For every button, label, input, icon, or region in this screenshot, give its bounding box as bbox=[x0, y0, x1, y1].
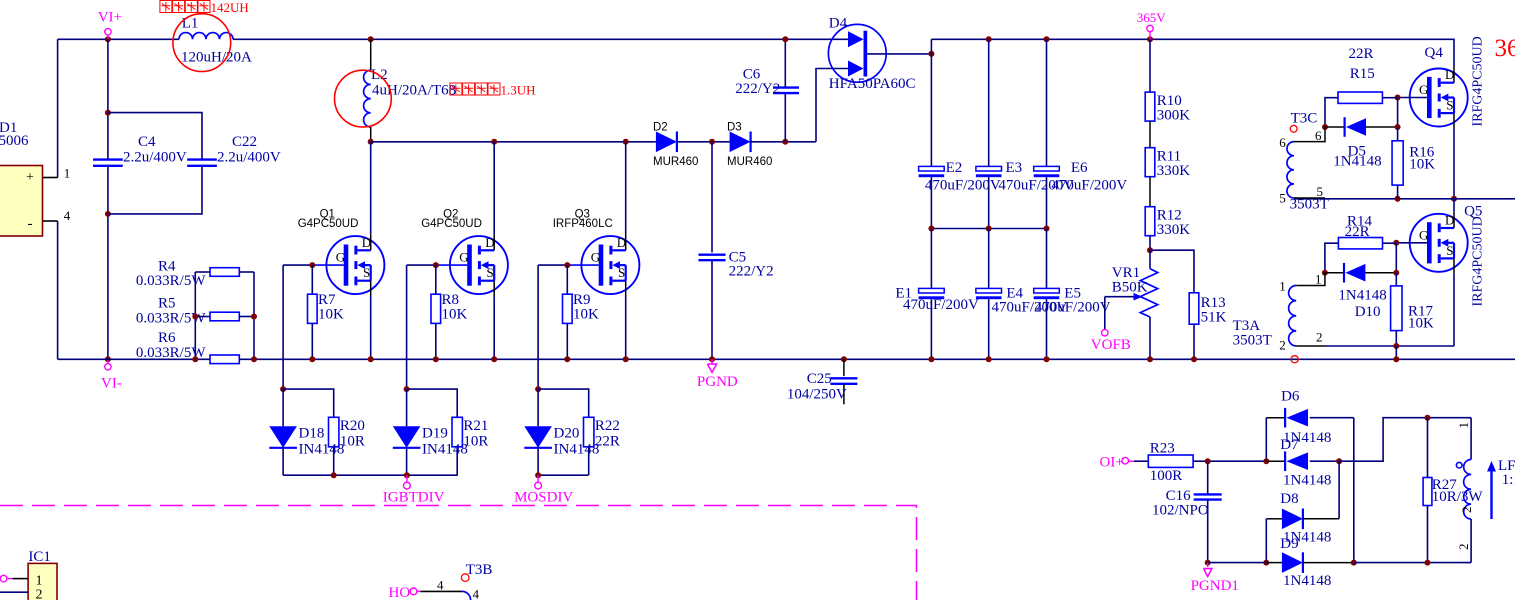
node D4 output bbox=[928, 51, 934, 57]
red 365V clipped bbox=[1495, 35, 1515, 62]
svg-text:IN4148: IN4148 bbox=[299, 442, 345, 458]
wire E mid rail bbox=[931, 228, 1046, 230]
resistor R13 bbox=[1150, 250, 1227, 359]
node E bottom junctions bbox=[928, 356, 1049, 362]
svg-text:S: S bbox=[487, 265, 494, 280]
red note 142UH bbox=[160, 0, 249, 15]
node R20 bottom bbox=[331, 472, 337, 478]
node MOSDIV tap bbox=[535, 472, 541, 478]
svg-text:T3C: T3C bbox=[1291, 110, 1318, 126]
svg-text:VI-: VI- bbox=[101, 376, 122, 392]
node D10 cathode junction bbox=[1393, 270, 1399, 276]
node R8 bottom bbox=[433, 356, 439, 362]
svg-text:D3: D3 bbox=[727, 122, 742, 134]
svg-text:D10: D10 bbox=[1355, 304, 1381, 320]
svg-text:MUR460: MUR460 bbox=[653, 156, 698, 168]
resistor R27 bbox=[1423, 418, 1483, 563]
svg-text:R8: R8 bbox=[442, 292, 460, 308]
svg-text:5: 5 bbox=[1279, 190, 1286, 205]
capacitor C16 bbox=[1152, 461, 1222, 562]
label Q4 part bbox=[1471, 36, 1486, 126]
capacitor C6 bbox=[784, 39, 786, 142]
wire bottom rail left of R6 bbox=[58, 358, 210, 360]
annotation circle on L2 bbox=[335, 70, 392, 127]
svg-text:R7: R7 bbox=[318, 292, 336, 308]
wire Q5 gate column bbox=[1395, 243, 1397, 273]
port VI+ bbox=[98, 10, 122, 40]
capacitor C5 bbox=[699, 142, 774, 359]
svg-text:C22: C22 bbox=[232, 134, 257, 150]
svg-text:2: 2 bbox=[1456, 544, 1471, 551]
node diode D19 top bbox=[404, 386, 410, 392]
resistor R11 bbox=[1145, 121, 1190, 179]
node D5 anode junction bbox=[1322, 124, 1328, 130]
wire D7-D8 link bbox=[1338, 461, 1340, 519]
node C6 top bbox=[782, 36, 788, 42]
diode D8 bbox=[1266, 491, 1339, 546]
diode D6 bbox=[1266, 389, 1354, 447]
wire bottom rail main bbox=[239, 358, 1515, 360]
svg-text:PGND: PGND bbox=[697, 374, 738, 390]
node R27 bottom bbox=[1425, 560, 1431, 566]
svg-text:R15: R15 bbox=[1350, 66, 1375, 82]
potentiometer VR1 bbox=[1105, 250, 1158, 359]
wire Q1 gate bbox=[283, 264, 344, 266]
wire Q1 drain bbox=[370, 142, 372, 234]
svg-text:L1: L1 bbox=[182, 16, 199, 32]
transistor Q1 bbox=[298, 208, 385, 296]
svg-text:120uH/20A: 120uH/20A bbox=[181, 49, 252, 65]
svg-text:10R: 10R bbox=[340, 434, 365, 450]
svg-text:R23: R23 bbox=[1150, 441, 1175, 457]
node D7 anode junction bbox=[1336, 458, 1342, 464]
svg-text:1N4148: 1N4148 bbox=[1338, 287, 1386, 303]
port 365V bbox=[1137, 10, 1167, 42]
wire D8 anode drop bbox=[1265, 519, 1267, 563]
wire Q4 gate link bbox=[1398, 97, 1427, 99]
transformer LF1 bbox=[1456, 418, 1474, 563]
wire Q5 gate link bbox=[1396, 242, 1427, 244]
svg-text:470uF/200V: 470uF/200V bbox=[1035, 300, 1111, 316]
svg-text:D: D bbox=[362, 235, 371, 250]
node R27 top bbox=[1425, 415, 1431, 421]
svg-text:3503T: 3503T bbox=[1290, 196, 1329, 212]
transformer winding T3A bbox=[1279, 271, 1325, 352]
transistor Q5 bbox=[1410, 203, 1483, 273]
svg-text:2: 2 bbox=[1316, 329, 1323, 344]
diode D7 bbox=[1266, 437, 1339, 489]
svg-text:10K: 10K bbox=[318, 307, 344, 323]
ic IC1 pin 1 bbox=[0, 575, 28, 582]
ground PGND bbox=[697, 359, 738, 390]
svg-text:1: 1 bbox=[64, 166, 71, 181]
resistor R10 bbox=[1145, 39, 1190, 123]
resistor R15 bbox=[1325, 46, 1398, 127]
wire D7 anode to output riser bbox=[1339, 418, 1471, 462]
svg-text:1: 1 bbox=[1279, 279, 1286, 294]
svg-text:VI+: VI+ bbox=[98, 10, 122, 26]
svg-text:10R: 10R bbox=[463, 434, 488, 450]
wire C22 loop bbox=[108, 113, 202, 214]
node C6 bottom bbox=[782, 139, 788, 145]
svg-text:6: 6 bbox=[1315, 128, 1322, 143]
svg-text:D4: D4 bbox=[829, 16, 848, 32]
svg-text:D: D bbox=[617, 235, 626, 250]
svg-text:D20: D20 bbox=[554, 425, 580, 441]
svg-text:D: D bbox=[1445, 213, 1454, 228]
wire R20 top link bbox=[283, 389, 334, 417]
resistor R6 bbox=[136, 330, 239, 364]
node divider tap bbox=[1147, 236, 1153, 254]
svg-text:E3: E3 bbox=[1006, 160, 1023, 176]
node D5 cathode junction bbox=[1395, 124, 1401, 130]
node VI+ junction bbox=[105, 36, 111, 42]
node C5 tap bbox=[709, 139, 715, 145]
label T3A 3503T bbox=[1233, 318, 1272, 349]
svg-text:IGBTDIV: IGBTDIV bbox=[383, 490, 445, 506]
wire Q3 drain bbox=[625, 142, 627, 234]
node R17 bottom bbox=[1393, 343, 1399, 349]
node Q2 source at rail bbox=[491, 356, 497, 362]
capacitor E1 bbox=[895, 229, 979, 360]
svg-text:-: - bbox=[28, 216, 33, 232]
svg-text:3503T: 3503T bbox=[1233, 333, 1272, 349]
node R16 bottom bbox=[1395, 196, 1401, 202]
node diode D18 top bbox=[280, 386, 286, 392]
resistor R17 bbox=[1391, 273, 1434, 346]
svg-text:330K: 330K bbox=[1157, 163, 1191, 179]
svg-text:+: + bbox=[26, 170, 34, 185]
node link at bottom rail bbox=[1393, 356, 1399, 362]
svg-text:10K: 10K bbox=[573, 307, 599, 323]
transistor Q2 bbox=[421, 208, 508, 296]
svg-text:4: 4 bbox=[473, 587, 480, 600]
resistor R20 bbox=[329, 417, 365, 475]
node Q4 gate bbox=[1395, 95, 1401, 101]
svg-text:1: 1 bbox=[36, 574, 43, 589]
svg-text:10R/3W: 10R/3W bbox=[1432, 489, 1484, 505]
wire R22 top link bbox=[538, 389, 589, 417]
node D10 anode junction bbox=[1322, 270, 1328, 276]
bridge D1 pin 4 bbox=[43, 208, 71, 223]
svg-text:R6: R6 bbox=[158, 330, 176, 346]
svg-text:4uH/20A/T68: 4uH/20A/T68 bbox=[372, 83, 456, 99]
svg-text:IRFG4PC50UD: IRFG4PC50UD bbox=[1471, 36, 1486, 126]
diode D18 bbox=[269, 389, 344, 475]
svg-text:D6: D6 bbox=[1281, 389, 1300, 405]
svg-text:2.2u/400V: 2.2u/400V bbox=[217, 150, 281, 166]
wire D6 cathode drop bbox=[1265, 418, 1267, 462]
svg-text:1N4148: 1N4148 bbox=[1333, 154, 1381, 170]
wire Q4 gate column bbox=[1397, 98, 1399, 128]
node L2 top bbox=[368, 36, 374, 42]
node C16 top bbox=[1205, 458, 1211, 464]
svg-text:E6: E6 bbox=[1071, 160, 1088, 176]
svg-text:R5: R5 bbox=[158, 296, 176, 312]
wire MOS divider bottom bbox=[538, 474, 588, 476]
wire HO to T3B bbox=[421, 578, 480, 600]
svg-text:470uF/200V: 470uF/200V bbox=[903, 297, 979, 313]
svg-text:330K: 330K bbox=[1157, 222, 1191, 238]
port HO bbox=[389, 585, 421, 600]
node shunt junctions bbox=[192, 314, 257, 363]
svg-text:10K: 10K bbox=[1408, 315, 1434, 331]
svg-text:R9: R9 bbox=[573, 292, 591, 308]
ic IC1 pin 2 bbox=[0, 591, 28, 593]
svg-text:D19: D19 bbox=[422, 425, 448, 441]
dual diode D4 bbox=[828, 16, 931, 93]
wire D4 lower anode riser bbox=[816, 69, 848, 142]
svg-text:22R: 22R bbox=[1349, 46, 1374, 62]
label T3C bbox=[1290, 110, 1317, 132]
transistor Q4 bbox=[1410, 45, 1468, 129]
svg-text:10K: 10K bbox=[442, 307, 468, 323]
svg-text:142UH: 142UH bbox=[211, 0, 249, 15]
svg-text:10K: 10K bbox=[1409, 156, 1435, 172]
svg-text:MOSDIV: MOSDIV bbox=[514, 490, 573, 506]
wire E2 column upper bbox=[930, 39, 932, 166]
label Q5 part bbox=[1471, 216, 1486, 306]
svg-text:D18: D18 bbox=[299, 425, 325, 441]
wire D3 to D4 riser bbox=[751, 141, 816, 143]
svg-text:OI+: OI+ bbox=[1100, 455, 1124, 471]
wire Q2 drain bbox=[493, 142, 495, 234]
svg-text:2: 2 bbox=[1459, 507, 1474, 514]
node VR1 bottom bbox=[1147, 356, 1153, 362]
wire D6 anode drop bbox=[1353, 418, 1355, 563]
resistor R16 bbox=[1392, 127, 1435, 199]
dashed sheet border bbox=[0, 506, 917, 600]
svg-text:470uF/200V: 470uF/200V bbox=[925, 178, 1001, 194]
ground PGND1 bbox=[1191, 563, 1239, 594]
resistor R9 bbox=[563, 265, 600, 359]
svg-text:Q4: Q4 bbox=[1425, 45, 1444, 61]
svg-text:IN4148: IN4148 bbox=[422, 442, 468, 458]
node C25 tap bbox=[841, 356, 847, 362]
wire left drop to bottom rail bbox=[57, 221, 59, 359]
node D7 cathode junction bbox=[1263, 458, 1269, 464]
wire top rail to C6 node bbox=[371, 38, 786, 40]
svg-text:1:1: 1:1 bbox=[1502, 472, 1515, 488]
svg-text:75006: 75006 bbox=[0, 133, 29, 149]
wire left drop to bridge pin 1 bbox=[57, 39, 59, 177]
svg-text:4: 4 bbox=[64, 208, 71, 223]
resistor R7 bbox=[308, 265, 345, 359]
capacitor E3 bbox=[976, 39, 1075, 228]
wire link to bottom rail bbox=[1395, 346, 1397, 359]
erc marker bottom rail bbox=[1291, 356, 1298, 363]
capacitor E4 bbox=[976, 229, 1068, 360]
svg-text:MUR460: MUR460 bbox=[727, 156, 772, 168]
node E3 top bbox=[986, 36, 992, 42]
node IGBTDIV tap bbox=[404, 472, 410, 478]
resistor R22 bbox=[584, 417, 620, 475]
svg-text:100R: 100R bbox=[1150, 468, 1183, 484]
wire Q2 gate drop bbox=[406, 265, 408, 389]
wire mid rail bbox=[1294, 198, 1515, 200]
svg-text:1: 1 bbox=[1456, 422, 1471, 429]
node Q3 drain bbox=[623, 139, 629, 145]
node diode D20 top bbox=[535, 386, 541, 392]
capacitor E2 bbox=[919, 160, 1001, 229]
svg-text:T3B: T3B bbox=[466, 562, 493, 578]
svg-text:S: S bbox=[363, 265, 370, 280]
node second rail left end bbox=[368, 139, 374, 145]
node Q1 gate bbox=[309, 262, 315, 268]
svg-text:S: S bbox=[1446, 243, 1453, 258]
svg-text:D: D bbox=[485, 235, 494, 250]
node C4 top loop bbox=[105, 110, 111, 116]
svg-text:PGND1: PGND1 bbox=[1191, 578, 1239, 594]
svg-text:D8: D8 bbox=[1280, 491, 1298, 507]
wire shunt ladder left bbox=[195, 272, 210, 359]
node D9 anode junction bbox=[1263, 560, 1269, 566]
resistor R23 bbox=[1134, 441, 1266, 485]
svg-text:1: 1 bbox=[1315, 271, 1322, 286]
svg-text:470uF/200V: 470uF/200V bbox=[1051, 178, 1127, 194]
diode D9 bbox=[1266, 536, 1354, 589]
svg-text:G4PC50UD: G4PC50UD bbox=[298, 218, 359, 230]
ic IC1 bbox=[28, 549, 57, 600]
wire top rail into D4 bbox=[785, 38, 848, 40]
label LF1 arrow bbox=[1487, 458, 1515, 519]
node C4 bottom loop bbox=[105, 211, 111, 217]
node R13 bottom bbox=[1191, 356, 1197, 362]
resistor R12 bbox=[1145, 177, 1190, 238]
resistor R4 bbox=[136, 259, 239, 290]
wire top rail corner to Q4 drain bbox=[1453, 39, 1455, 66]
wire C4 column bbox=[107, 39, 109, 359]
port OI+ bbox=[1100, 455, 1135, 471]
annotation circle on L1 bbox=[173, 14, 231, 72]
svg-text:D: D bbox=[1445, 67, 1454, 82]
node E6 top bbox=[1044, 36, 1050, 42]
svg-text:G: G bbox=[336, 250, 345, 265]
svg-text:IN4148: IN4148 bbox=[554, 442, 600, 458]
svg-text:G: G bbox=[1419, 82, 1428, 97]
wire Q3 gate drop bbox=[537, 265, 539, 389]
svg-text:B50K: B50K bbox=[1112, 280, 1148, 296]
wire Q1 gate drop bbox=[282, 265, 284, 389]
svg-text:2: 2 bbox=[1279, 337, 1286, 352]
diode D20 bbox=[524, 389, 599, 475]
port VI- bbox=[101, 356, 122, 391]
wire R21 top link bbox=[407, 389, 458, 417]
svg-text:365V: 365V bbox=[1495, 35, 1515, 62]
node Q2 gate bbox=[433, 262, 439, 268]
wire C16 bottom to D9 bbox=[1208, 562, 1267, 564]
svg-text:D7: D7 bbox=[1280, 437, 1299, 453]
wire IGBT divider bottom bbox=[283, 474, 458, 476]
svg-text:222/Y2: 222/Y2 bbox=[735, 81, 780, 97]
node PGND tap bbox=[709, 356, 715, 362]
svg-text:C4: C4 bbox=[138, 134, 156, 150]
svg-text:S: S bbox=[1446, 98, 1453, 113]
transistor Q3 bbox=[553, 208, 640, 296]
wire Q3 source bbox=[625, 296, 627, 359]
wire bottom net to LF1 bbox=[1354, 562, 1471, 564]
svg-text:2.2u/400V: 2.2u/400V bbox=[123, 150, 187, 166]
svg-text:HFA50PA60C: HFA50PA60C bbox=[829, 76, 916, 92]
svg-text:VOFB: VOFB bbox=[1091, 337, 1131, 353]
resistor R8 bbox=[431, 265, 468, 359]
wire Q2 gate bbox=[407, 264, 468, 266]
svg-text:4: 4 bbox=[437, 578, 444, 593]
wire D2 to D3 bbox=[677, 141, 730, 143]
node E mid junctions bbox=[928, 226, 1049, 232]
diode D2 bbox=[653, 122, 698, 169]
svg-text:R21: R21 bbox=[463, 418, 488, 434]
diode D3 bbox=[727, 122, 772, 169]
svg-text:R20: R20 bbox=[340, 418, 365, 434]
svg-text:365V: 365V bbox=[1137, 10, 1167, 25]
capacitor E6 bbox=[1034, 39, 1128, 228]
svg-text:D9: D9 bbox=[1280, 536, 1298, 552]
node D6 anode at bottom bbox=[1351, 560, 1357, 566]
wire Q1 source bbox=[370, 296, 372, 359]
node Q2 drain bbox=[491, 139, 497, 145]
resistor R5 bbox=[136, 296, 239, 327]
label T3B bbox=[461, 562, 492, 581]
svg-text:1N4148: 1N4148 bbox=[1283, 573, 1331, 589]
node Q3 source at rail bbox=[623, 356, 629, 362]
wire top rail left segment bbox=[58, 38, 179, 40]
capacitor C25 bbox=[787, 359, 858, 404]
capacitor C4 bbox=[93, 134, 187, 166]
svg-text:104/250V: 104/250V bbox=[787, 387, 847, 403]
diode D10 bbox=[1325, 263, 1396, 320]
inductor L1 bbox=[179, 16, 252, 66]
inductor L2 bbox=[364, 39, 457, 142]
wire Q5 drain bbox=[1453, 199, 1455, 212]
svg-text:IRFG4PC50UD: IRFG4PC50UD bbox=[1471, 216, 1486, 306]
wire Q5 source bbox=[1453, 274, 1455, 346]
wire top rail L1 to L2 junction bbox=[233, 38, 371, 40]
node R9 bottom bbox=[564, 356, 570, 362]
diode D19 bbox=[393, 389, 468, 475]
svg-text:IC1: IC1 bbox=[28, 549, 51, 565]
svg-text:HO: HO bbox=[389, 585, 411, 600]
capacitor C22 bbox=[187, 134, 281, 166]
capacitor E5 bbox=[1034, 229, 1111, 360]
wire Q2 source bbox=[493, 296, 495, 359]
diode D5 bbox=[1325, 117, 1398, 169]
transformer winding T3C bbox=[1279, 127, 1328, 212]
svg-text:2: 2 bbox=[36, 588, 43, 600]
node Q1 source at rail bbox=[368, 356, 374, 362]
node Q5 gate bbox=[1393, 240, 1399, 246]
node PGND1 tap bbox=[1205, 560, 1211, 566]
bridge rectifier D1 bbox=[0, 120, 43, 236]
wire Q4 source bbox=[1453, 129, 1455, 199]
svg-text:IRFP460LC: IRFP460LC bbox=[553, 218, 613, 230]
wire second rail bbox=[371, 141, 656, 143]
svg-text:D2: D2 bbox=[653, 122, 668, 134]
svg-text:C25: C25 bbox=[807, 371, 832, 387]
resistor R21 bbox=[452, 417, 488, 475]
port IGBTDIV bbox=[383, 475, 445, 505]
svg-text:22R: 22R bbox=[595, 434, 620, 450]
node Q3 gate bbox=[564, 262, 570, 268]
svg-text:G: G bbox=[591, 250, 600, 265]
node R7 bottom bbox=[309, 356, 315, 362]
resistor R14 bbox=[1325, 213, 1396, 272]
svg-text:1.3UH: 1.3UH bbox=[501, 83, 536, 98]
bridge D1 pin 1 bbox=[43, 166, 71, 181]
svg-text:S: S bbox=[618, 265, 625, 280]
svg-text:222/Y2: 222/Y2 bbox=[729, 264, 774, 280]
node Q4 source at mid rail bbox=[1451, 196, 1457, 202]
